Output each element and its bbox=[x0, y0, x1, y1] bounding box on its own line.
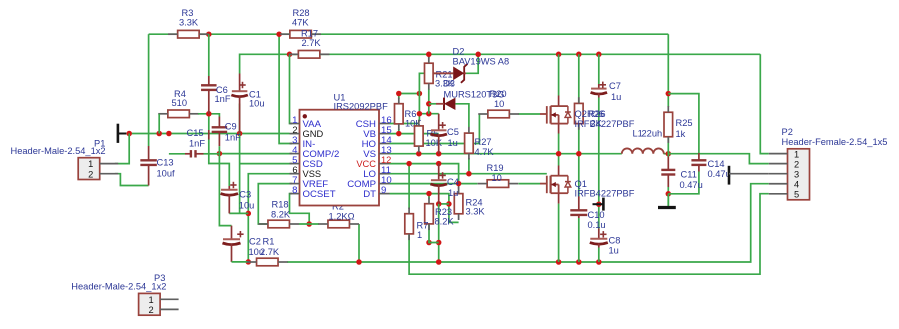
svg-text:0.47u: 0.47u bbox=[680, 180, 703, 190]
wire C4-bottom to DT vertical bbox=[439, 203, 449, 205]
svg-text:R18: R18 bbox=[272, 200, 289, 210]
svg-text:10u: 10u bbox=[239, 201, 255, 211]
wire pin12 row (VCC) corner down to COMP row bbox=[390, 164, 459, 184]
svg-text:C7: C7 bbox=[609, 81, 621, 91]
svg-text:9: 9 bbox=[381, 185, 386, 196]
svg-text:C4: C4 bbox=[447, 177, 459, 187]
capacitor C6 bbox=[201, 34, 231, 114]
wire D2-anode vertical x=419 bbox=[419, 73, 453, 121]
wire R23 top to DT row bbox=[428, 194, 430, 199]
wire left rail down to C13 bbox=[148, 34, 150, 146]
wire R7 bottom to rail B bbox=[409, 194, 769, 275]
svg-text:5: 5 bbox=[794, 190, 799, 200]
wire R25 bottom bbox=[667, 138, 669, 157]
node junction GND/R4-left bbox=[156, 131, 162, 137]
node junction railA/C8 bbox=[596, 259, 602, 265]
svg-text:R6: R6 bbox=[405, 109, 417, 119]
node junction railA/R2 bbox=[356, 259, 362, 265]
svg-text:OCSET: OCSET bbox=[303, 189, 336, 200]
svg-text:MURS120T3G: MURS120T3G bbox=[444, 89, 505, 99]
wire IN- vertical rail to pin 3 bbox=[279, 34, 292, 143]
node junction C11/C14/GND bbox=[666, 191, 672, 197]
wire C8 bottom down bbox=[598, 248, 600, 263]
transistor Q2 IRFB4227PBF bbox=[540, 106, 635, 129]
node junction VCC/R26 bbox=[576, 52, 582, 58]
svg-text:Q1: Q1 bbox=[575, 179, 587, 189]
node junction rail34/IN- vertical bbox=[276, 31, 282, 37]
svg-text:R7: R7 bbox=[417, 220, 429, 230]
svg-text:10uf: 10uf bbox=[157, 168, 176, 178]
node junction GND/C15-left bbox=[166, 131, 172, 137]
wire VCC-bus y=54 (R17 to P2 area) bbox=[288, 53, 760, 55]
node junction VCC/R7-top bbox=[406, 161, 412, 167]
node junction R4/C6 bbox=[206, 111, 212, 117]
wire pin14 row (HO) to R20 bbox=[390, 114, 480, 144]
svg-text:C15: C15 bbox=[187, 128, 204, 138]
node junction R17/pin1 vertical bbox=[287, 52, 293, 58]
node junction R25-top/C14 bbox=[666, 91, 672, 97]
terminal TP1 (black bar at input) bbox=[118, 124, 126, 143]
node junction VS/C5-bottom bbox=[436, 151, 442, 157]
svg-text:0.47u: 0.47u bbox=[708, 169, 731, 179]
node junction DT-vert/C4-bottom wire bbox=[446, 201, 452, 207]
node junction VS/R5-bottom bbox=[416, 151, 422, 157]
node junction VCC/C7 bbox=[596, 52, 602, 58]
wire D2 cathode up to VCC bus bbox=[465, 54, 478, 73]
svg-text:10: 10 bbox=[492, 173, 502, 183]
node junction GND/C1-bottom bbox=[237, 131, 243, 137]
wire Q2 source down to phase bbox=[558, 123, 560, 154]
wire R27 bottom to LO row bbox=[468, 158, 470, 174]
svg-text:Header-Female-2.54_1x5: Header-Female-2.54_1x5 bbox=[782, 137, 888, 147]
svg-text:3.3K: 3.3K bbox=[179, 17, 199, 27]
svg-text:3.3K: 3.3K bbox=[466, 207, 486, 217]
wire pin5 row (CSD) and C1 vertical bbox=[240, 163, 292, 165]
svg-text:R27: R27 bbox=[475, 137, 492, 147]
svg-text:D3: D3 bbox=[443, 79, 455, 89]
svg-text:IRFB4227PBF: IRFB4227PBF bbox=[575, 119, 635, 129]
resistor R2 bbox=[318, 202, 359, 228]
capacitor C14 bbox=[691, 153, 730, 179]
svg-text:R23: R23 bbox=[435, 207, 452, 217]
node junction railA/Q1-source bbox=[556, 259, 562, 265]
resistor R19 bbox=[478, 163, 519, 188]
svg-text:D2: D2 bbox=[453, 47, 465, 57]
wire pin9 row (DT) corner to R24 bottom bbox=[390, 194, 459, 223]
wire pin6 row (VSS) corner down bbox=[248, 174, 292, 262]
svg-text:12: 12 bbox=[381, 155, 391, 165]
wire R20 to Q2 gate bbox=[519, 113, 541, 115]
wire C7 vertical bbox=[598, 54, 600, 84]
wire D3 cathode link bbox=[429, 103, 436, 105]
wire R4-left corner bbox=[158, 114, 160, 134]
svg-text:4.7K: 4.7K bbox=[475, 147, 495, 157]
svg-text:1: 1 bbox=[794, 149, 799, 159]
resistor R23 bbox=[425, 198, 455, 231]
svg-text:1nF: 1nF bbox=[215, 94, 231, 104]
resistor R5 bbox=[415, 120, 443, 153]
wire D3 anode corner to R27 top bbox=[455, 104, 469, 127]
svg-text:2: 2 bbox=[88, 169, 93, 179]
wire C4/R23 vertical down to bottom rail bbox=[438, 204, 440, 262]
node junction 419/113 bbox=[417, 111, 423, 117]
svg-text:10u: 10u bbox=[249, 99, 265, 109]
node junction link/vert419 bbox=[417, 91, 423, 97]
resistor R20 bbox=[478, 89, 519, 118]
node junction R23-elbow bbox=[426, 240, 441, 246]
wire VAA vertical to pin 1 bbox=[290, 54, 293, 123]
terminal TP3 (black bar at P2 pin3) bbox=[729, 166, 769, 185]
node junction COMP/VCC/R24-top bbox=[456, 181, 462, 187]
node junction VCC/D2 bbox=[475, 52, 481, 58]
diode D2 BAV19WS bbox=[433, 47, 509, 83]
svg-text:C5: C5 bbox=[447, 127, 459, 137]
svg-text:1k: 1k bbox=[676, 129, 686, 139]
capacitor C15 bbox=[169, 128, 220, 158]
wire output row to P2 pin2 bbox=[668, 154, 769, 164]
svg-text:IRS2092PBF: IRS2092PBF bbox=[334, 101, 389, 111]
node junction LO/R27-bottom bbox=[466, 171, 472, 177]
resistor R28 bbox=[280, 8, 321, 38]
node junction pin4/C15/C9/C2 bbox=[217, 151, 223, 157]
node junction D3-cathode bbox=[426, 101, 432, 107]
wire R17-left to C1 top corner bbox=[240, 54, 297, 73]
resistor R21 bbox=[425, 57, 455, 90]
terminal TP2 (black bar near C8) bbox=[593, 198, 604, 211]
wire R26/C10 vertical bbox=[578, 54, 580, 196]
capacitor C13 bbox=[140, 146, 175, 186]
wire pin11 row (LO) bbox=[390, 173, 547, 175]
resistor R24 bbox=[454, 187, 485, 220]
resistor R3 bbox=[168, 8, 209, 38]
wire R18-R2 link bbox=[299, 223, 319, 225]
wire pin15 row (VB) bbox=[390, 133, 439, 135]
wire R23 bottom elbow bbox=[429, 224, 439, 243]
svg-text:C9: C9 bbox=[225, 122, 237, 132]
svg-text:1u: 1u bbox=[611, 92, 621, 102]
svg-text:10: 10 bbox=[494, 99, 504, 109]
wire VCC-bus right corner down to P2 pin1 bbox=[760, 54, 769, 153]
wire R25top to C14 top bbox=[668, 94, 699, 153]
capacitor C11 bbox=[661, 157, 702, 191]
wire pin4 row (COMP/2) bbox=[219, 153, 292, 155]
svg-text:10K: 10K bbox=[426, 138, 443, 148]
wire C10 bottom down bbox=[578, 218, 580, 262]
node junction VSS/R1/C2 bbox=[246, 259, 252, 265]
capacitor C9 bbox=[212, 117, 241, 154]
wire C2 top branch from pin4 node bbox=[219, 154, 231, 226]
svg-text:2: 2 bbox=[149, 305, 154, 315]
svg-text:P2: P2 bbox=[782, 127, 793, 137]
svg-text:1: 1 bbox=[417, 230, 422, 240]
svg-text:2: 2 bbox=[292, 125, 297, 135]
svg-text:DT: DT bbox=[363, 189, 376, 200]
svg-text:3: 3 bbox=[794, 170, 799, 180]
node junction R18/R2/OCSET bbox=[306, 221, 312, 227]
svg-text:R25: R25 bbox=[676, 118, 693, 128]
svg-text:2: 2 bbox=[794, 159, 799, 169]
diode D3 MURS120T3G bbox=[436, 89, 504, 110]
resistor R25 bbox=[664, 106, 693, 143]
wire rail34 corner down to R25 node bbox=[667, 34, 669, 107]
node junction railA/C4-vert bbox=[436, 259, 442, 265]
wire R24 top to COMP row bbox=[458, 184, 460, 189]
node junction VB/R6-bottom bbox=[396, 131, 402, 137]
svg-text:2.7K: 2.7K bbox=[302, 38, 322, 48]
svg-text:BAV19WS A8: BAV19WS A8 bbox=[453, 57, 510, 67]
svg-text:VSS: VSS bbox=[303, 169, 322, 179]
capacitor C7 bbox=[591, 81, 622, 102]
wire C11 bottom to gnd node bbox=[667, 187, 669, 207]
wire top rail net N$1 (R3-R28 row) bbox=[149, 33, 669, 35]
wire C14 bottom link bbox=[668, 172, 699, 194]
wire R4-right to C9 bbox=[198, 114, 219, 117]
wire R4/C6 node down-jog to C3 top bbox=[209, 114, 230, 186]
wire R21/D3 vertical x=428.8 bbox=[428, 89, 430, 114]
wire C1 bottom vertical bbox=[239, 104, 241, 214]
wire Q2 drain up bbox=[558, 54, 560, 106]
wire bottom rail A (VSS bus) bbox=[287, 184, 769, 262]
svg-text:C8: C8 bbox=[609, 235, 621, 245]
resistor R26 bbox=[575, 97, 606, 130]
svg-text:510: 510 bbox=[172, 98, 188, 108]
svg-text:1: 1 bbox=[149, 295, 154, 305]
svg-text:4: 4 bbox=[794, 180, 799, 190]
svg-text:1nF: 1nF bbox=[225, 133, 241, 143]
node junction C7/testpoint bbox=[596, 201, 602, 207]
op-amp U1 IRS2092PBF bbox=[290, 92, 393, 205]
svg-text:R1: R1 bbox=[263, 236, 275, 246]
wire R6 top stub bbox=[398, 94, 400, 100]
resistor R17 bbox=[289, 29, 330, 59]
capacitor C5 bbox=[430, 114, 458, 154]
node junction VSS/C3 wire bbox=[246, 211, 252, 217]
node junction VCC/Q2-drain bbox=[556, 52, 562, 58]
capacitor C8 bbox=[590, 229, 621, 256]
transistor Q1 IRFB4227PBF bbox=[540, 176, 635, 199]
svg-text:47K: 47K bbox=[292, 17, 309, 27]
wire pin16 row (CSH) to R5 top bbox=[390, 123, 419, 125]
connector P3 Header-Male-2.54_1x2 bbox=[71, 273, 178, 315]
node junction DT/R23-top bbox=[426, 191, 432, 197]
svg-text:IRFB4227PBF: IRFB4227PBF bbox=[575, 189, 635, 199]
node junction phase/R26-C10 bbox=[576, 151, 582, 157]
wire Q1 drain up to phase bbox=[558, 154, 560, 177]
svg-text:1u: 1u bbox=[448, 138, 458, 148]
svg-text:8.2K: 8.2K bbox=[435, 217, 455, 227]
resistor R7 bbox=[405, 208, 429, 241]
capacitor C3 bbox=[221, 182, 255, 214]
node junction phase/FETs bbox=[556, 151, 562, 157]
wire C7 bottom long vertical bbox=[598, 98, 600, 229]
node junction R6-top bbox=[396, 91, 402, 97]
capacitor C4 bbox=[430, 164, 458, 204]
svg-text:Header-Male-2.54_1x2: Header-Male-2.54_1x2 bbox=[11, 146, 106, 156]
svg-text:2.7K: 2.7K bbox=[260, 247, 280, 257]
node junction C4-bottom bbox=[436, 201, 442, 207]
resistor R27 bbox=[465, 127, 495, 160]
capacitor C1 bbox=[231, 74, 264, 134]
wire R21 top stub bbox=[428, 54, 430, 58]
svg-text:C3: C3 bbox=[239, 190, 251, 200]
svg-text:C13: C13 bbox=[157, 157, 174, 167]
wire P1 pin1 branch bbox=[115, 134, 129, 164]
node junction rail34/C6/R3 bbox=[206, 31, 212, 37]
wire R6 top link bbox=[399, 93, 420, 95]
wire pin10 row (COMP) to R19 bbox=[390, 183, 478, 185]
node junction railA/C10 bbox=[576, 259, 582, 265]
wire L1 right to node bbox=[664, 153, 669, 155]
inductor L1 22uh bbox=[622, 129, 664, 154]
svg-text:Q2: Q2 bbox=[575, 109, 587, 119]
svg-text:C2: C2 bbox=[249, 236, 261, 246]
wire R19 to Q1 gate bbox=[518, 183, 540, 185]
wire pin13 row (VS) to output bbox=[390, 153, 622, 155]
wire C3 bottom to VSS vertical bbox=[229, 212, 248, 214]
wire VCC to R7 top bbox=[408, 164, 410, 209]
wire P1 pin2 to C13 bottom bbox=[115, 174, 149, 186]
wire VB-aux row y=113.7 bbox=[419, 113, 438, 115]
svg-text:6: 6 bbox=[292, 165, 297, 175]
ground bbox=[658, 194, 676, 208]
svg-text:R19: R19 bbox=[487, 163, 504, 173]
wire pin8 (OCSET) to R18/R2 node bbox=[290, 194, 310, 224]
svg-text:8.2K: 8.2K bbox=[271, 210, 291, 220]
svg-text:GND: GND bbox=[303, 129, 324, 139]
node junction GND/P1 branch bbox=[126, 131, 132, 137]
resistor R18 bbox=[258, 200, 299, 228]
svg-text:1u: 1u bbox=[448, 188, 458, 198]
resistor R4 bbox=[158, 89, 199, 118]
wire Q1 source down bbox=[558, 193, 560, 262]
svg-text:VCC: VCC bbox=[356, 159, 376, 169]
svg-text:1u: 1u bbox=[609, 245, 619, 255]
wire pin7 row (VREF) to R18 bbox=[258, 184, 292, 224]
svg-text:8: 8 bbox=[292, 185, 297, 196]
connector P2 Header-Female-2.54_1x5 bbox=[769, 127, 888, 200]
node junction out/R25/C11/L1 bbox=[666, 151, 672, 157]
node junction VCC/R21 bbox=[426, 52, 432, 58]
svg-text:0.1u: 0.1u bbox=[588, 220, 606, 230]
svg-text:Header-Male-2.54_1x2: Header-Male-2.54_1x2 bbox=[71, 282, 166, 292]
svg-text:C11: C11 bbox=[681, 170, 697, 180]
svg-text:C10: C10 bbox=[588, 210, 605, 220]
resistor R1 bbox=[247, 236, 288, 265]
svg-text:R26: R26 bbox=[587, 109, 604, 119]
svg-text:22uh: 22uh bbox=[642, 129, 663, 139]
node junction 428/113 bbox=[426, 111, 432, 117]
connector P1 Header-Male-2.54_1x2 bbox=[11, 138, 119, 179]
wire R5 bottom to VS row bbox=[418, 151, 420, 154]
svg-text:C14: C14 bbox=[708, 159, 725, 169]
svg-text:1: 1 bbox=[88, 159, 93, 169]
wire GND row y=133.5 bbox=[126, 133, 289, 135]
capacitor C2 bbox=[223, 226, 265, 262]
svg-text:1.2KΩ: 1.2KΩ bbox=[329, 212, 355, 222]
wire R2 right vertical bbox=[358, 224, 360, 262]
wire R6 bottom to VB row bbox=[398, 129, 400, 134]
node junction VCC/C4-top bbox=[436, 161, 442, 167]
resistor R6 bbox=[395, 98, 423, 131]
capacitor C10 bbox=[570, 196, 605, 230]
svg-text:1nF: 1nF bbox=[189, 139, 205, 149]
